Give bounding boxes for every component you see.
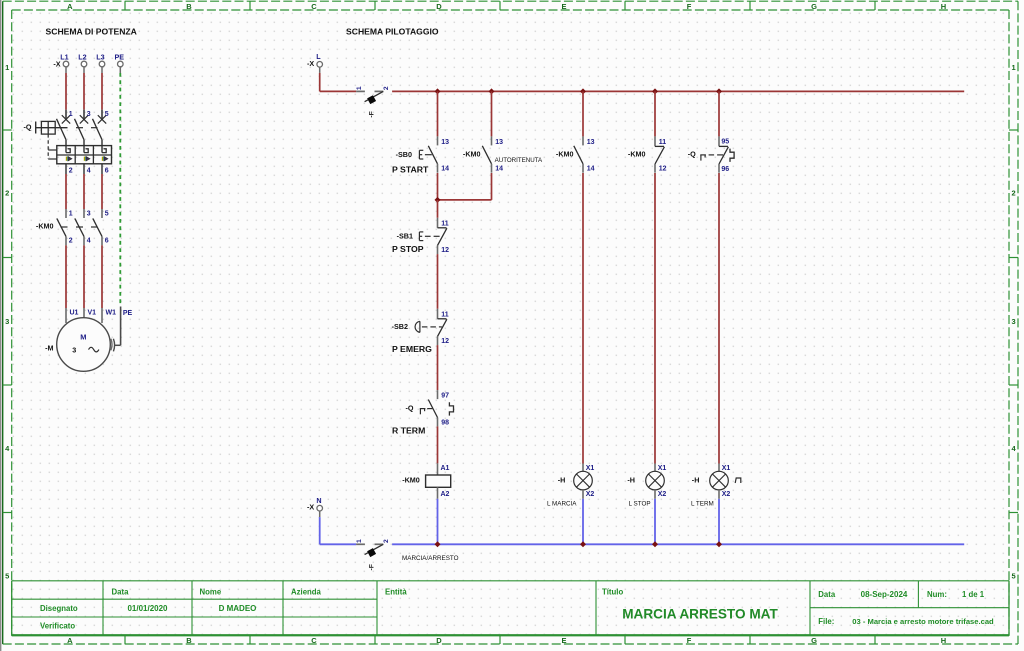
- wire L1 to breaker: [65, 73, 67, 110]
- contactor -KM0 aux contact NO 13-14: [482, 136, 491, 172]
- svg-text:G: G: [811, 636, 817, 645]
- wire contact to lamp x=583: [582, 173, 584, 464]
- svg-text:PE: PE: [123, 310, 133, 317]
- junction on neutral rail x=719: [716, 541, 722, 547]
- wire L3 contactor to motor: [101, 245, 103, 308]
- wire rail to contact x=583: [582, 91, 584, 136]
- svg-text:File:: File:: [818, 617, 834, 626]
- contactor -KM0 aux contact NC 11-12 (lamp stop): [655, 136, 664, 172]
- wire lamp to neutral x=583: [582, 499, 584, 545]
- contactor -KM0 pole 1-2: [57, 209, 66, 245]
- svg-text:Disegnato: Disegnato: [40, 604, 78, 613]
- junction on neutral rail x=583: [580, 541, 586, 547]
- pushbutton -SB0 contact NO: [428, 136, 437, 172]
- wire L1 breaker to contactor: [65, 174, 67, 209]
- wire L2 contactor to motor: [83, 245, 85, 308]
- phase rail L: [320, 90, 965, 92]
- svg-text:-M: -M: [45, 343, 53, 352]
- svg-text:11: 11: [441, 311, 449, 318]
- svg-text:X2: X2: [586, 491, 595, 498]
- svg-text:L STOP: L STOP: [629, 500, 651, 507]
- svg-text:SCHEMA DI POTENZA: SCHEMA DI POTENZA: [46, 26, 137, 36]
- wire L down to rail: [319, 73, 321, 92]
- wire coil to neutral rail: [437, 499, 439, 545]
- contactor -KM0 linkage dashes: [61, 226, 98, 228]
- svg-text:95: 95: [721, 138, 729, 145]
- wire -SB0 down: [437, 173, 439, 200]
- wire to -SB1: [437, 200, 439, 218]
- terminal L3 of -X: [96, 52, 105, 73]
- svg-text:MARCIA ARRESTO MAT: MARCIA ARRESTO MAT: [622, 606, 778, 621]
- svg-text:X1: X1: [658, 465, 667, 472]
- svg-text:14: 14: [441, 166, 449, 173]
- fuse -F on neutral rail: [356, 539, 390, 571]
- junction on phase rail x=655: [652, 88, 658, 94]
- svg-text:X2: X2: [722, 491, 731, 498]
- svg-text:08-Sep-2024: 08-Sep-2024: [861, 590, 908, 599]
- wire rail to contact x=655: [654, 91, 656, 136]
- svg-text:-SB1: -SB1: [397, 232, 413, 241]
- svg-text:1: 1: [356, 86, 363, 90]
- svg-text:F: F: [687, 636, 692, 645]
- svg-text:F: F: [687, 2, 692, 11]
- svg-text:AUTORITENUTA: AUTORITENUTA: [495, 157, 543, 164]
- svg-text:5: 5: [105, 111, 109, 118]
- svg-text:D: D: [436, 636, 442, 645]
- fuse -F on phase rail: [356, 86, 390, 118]
- svg-text:13: 13: [441, 139, 449, 146]
- wire L2 to breaker: [83, 73, 85, 110]
- wire contact to lamp x=655: [654, 173, 656, 464]
- svg-text:H: H: [941, 2, 946, 11]
- wire -KM0 aux down: [491, 173, 493, 200]
- svg-text:Título: Título: [602, 587, 623, 596]
- svg-text:-X: -X: [307, 503, 314, 512]
- -Q aux release hook: [449, 402, 453, 415]
- breaker -Q operator handle: [36, 121, 68, 134]
- svg-text:X1: X1: [586, 465, 595, 472]
- svg-text:-F: -F: [368, 564, 375, 570]
- breaker -Q linkage dashes: [48, 128, 97, 159]
- svg-text:3: 3: [1012, 317, 1016, 326]
- svg-text:B: B: [186, 2, 192, 11]
- flashing symbol next to L TERM lamp: [735, 478, 741, 483]
- wire lamp to neutral x=719: [718, 499, 720, 545]
- wire L3 to breaker: [101, 73, 103, 110]
- svg-text:L3: L3: [96, 52, 104, 61]
- motor -M stubs: [66, 308, 102, 323]
- svg-text:2: 2: [1012, 189, 1016, 198]
- wire L3 breaker to contactor: [101, 174, 103, 209]
- svg-text:2: 2: [5, 189, 9, 198]
- svg-text:E: E: [561, 636, 566, 645]
- indicator lamp -H (L MARCIA): [574, 464, 593, 499]
- svg-text:U1: U1: [70, 310, 79, 317]
- svg-text:1 de 1: 1 de 1: [962, 590, 985, 599]
- svg-text:E: E: [561, 2, 566, 11]
- svg-text:SCHEMA PILOTAGGIO: SCHEMA PILOTAGGIO: [346, 26, 439, 36]
- svg-text:Azienda: Azienda: [291, 587, 322, 596]
- terminal L1 of -X: [60, 52, 69, 73]
- wire self-hold joining: [438, 199, 492, 201]
- junction on phase rail x=491.5: [489, 88, 495, 94]
- svg-text:3: 3: [87, 210, 91, 217]
- svg-text:-H: -H: [627, 475, 635, 484]
- svg-text:1: 1: [69, 111, 73, 118]
- svg-text:03 - Marcia e arresto motore t: 03 - Marcia e arresto motore trifase.cad: [852, 617, 994, 626]
- svg-text:97: 97: [441, 393, 449, 400]
- svg-text:P STOP: P STOP: [392, 244, 424, 254]
- svg-text:C: C: [311, 2, 317, 11]
- svg-text:Data: Data: [818, 590, 836, 599]
- svg-text:-Q: -Q: [24, 123, 32, 132]
- svg-text:-KM0: -KM0: [628, 149, 646, 158]
- svg-text:M: M: [80, 333, 86, 342]
- breaker -Q pole 1-2: [57, 110, 71, 146]
- svg-text:R TERM: R TERM: [392, 426, 425, 436]
- contactor -KM0 pole 5-6: [93, 209, 102, 245]
- svg-text:12: 12: [441, 247, 449, 254]
- wire contact to lamp x=719: [718, 173, 720, 464]
- svg-text:Data: Data: [112, 587, 130, 596]
- svg-text:A: A: [67, 636, 73, 645]
- svg-text:-SB2: -SB2: [392, 322, 408, 331]
- svg-text:A1: A1: [441, 465, 450, 472]
- junction on neutral rail x=437.5: [435, 541, 441, 547]
- motor -M body: [57, 318, 111, 372]
- wire L2 breaker to contactor: [83, 174, 85, 209]
- wire rail to -SB0: [437, 91, 439, 136]
- pushbutton -SB1 contact NC: [438, 218, 447, 254]
- svg-text:98: 98: [441, 419, 449, 426]
- svg-text:14: 14: [495, 166, 503, 173]
- neutral rail N: [320, 543, 965, 545]
- svg-text:6: 6: [105, 168, 109, 175]
- svg-text:2: 2: [383, 539, 390, 543]
- svg-text:2: 2: [69, 168, 73, 175]
- svg-text:B: B: [186, 636, 192, 645]
- indicator lamp -H (L TERM): [710, 464, 729, 499]
- svg-text:P START: P START: [392, 165, 429, 175]
- -SB1 actuator: [419, 232, 439, 241]
- svg-text:Verificato: Verificato: [40, 622, 75, 631]
- svg-text:4: 4: [87, 168, 91, 175]
- terminal N of -X: [307, 496, 322, 517]
- svg-text:11: 11: [441, 220, 449, 227]
- contactor coil -KM0: [426, 463, 451, 498]
- wire to coil -KM0: [437, 426, 439, 463]
- wire to -Q aux 97: [437, 345, 439, 390]
- svg-text:12: 12: [659, 166, 667, 173]
- junction on phase rail x=719: [716, 88, 722, 94]
- wire PE dashed: [119, 73, 121, 307]
- terminal PE of -X: [115, 52, 125, 73]
- svg-text:-X: -X: [307, 59, 314, 68]
- svg-text:1: 1: [356, 539, 363, 543]
- terminal L of -X: [307, 52, 322, 73]
- -SB0 actuator: [419, 150, 431, 159]
- svg-text:3: 3: [87, 111, 91, 118]
- contactor -KM0 pole 3-4: [75, 209, 84, 245]
- breaker -Q pole 5-6: [93, 110, 107, 146]
- svg-text:-KM0: -KM0: [556, 149, 574, 158]
- -SB2 mushroom actuator: [415, 321, 442, 332]
- svg-text:H: H: [941, 636, 946, 645]
- svg-text:12: 12: [441, 338, 449, 345]
- junction on phase rail x=437.5: [435, 88, 441, 94]
- svg-text:D MADEO: D MADEO: [219, 604, 257, 613]
- terminal L2 of -X: [78, 52, 87, 73]
- svg-text:-H: -H: [558, 475, 566, 484]
- junction self-hold: [435, 197, 441, 203]
- svg-text:PE: PE: [115, 52, 125, 61]
- -Q thermal actuator: [700, 155, 723, 161]
- svg-text:W1: W1: [106, 310, 117, 317]
- thermal relay -Q contact NC 95-96 (lamp term): [719, 136, 728, 172]
- svg-text:-Q: -Q: [406, 403, 414, 412]
- svg-text:L MARCIA: L MARCIA: [547, 500, 577, 507]
- junction on phase rail x=583: [580, 88, 586, 94]
- svg-text:1: 1: [69, 210, 73, 217]
- svg-text:C: C: [311, 636, 317, 645]
- svg-text:G: G: [811, 2, 817, 11]
- svg-text:Entità: Entità: [385, 587, 407, 596]
- svg-text:L TERM: L TERM: [691, 500, 714, 507]
- svg-text:P EMERG: P EMERG: [392, 344, 432, 354]
- thermal relay -Q contact NO 97-98: [428, 390, 437, 426]
- svg-text:5: 5: [1012, 572, 1016, 581]
- svg-text:01/01/2020: 01/01/2020: [127, 604, 168, 613]
- svg-text:5: 5: [5, 572, 9, 581]
- svg-text:11: 11: [659, 139, 667, 146]
- svg-text:N: N: [316, 496, 321, 505]
- svg-text:A: A: [67, 2, 73, 11]
- svg-text:X1: X1: [722, 465, 731, 472]
- svg-text:X2: X2: [658, 491, 667, 498]
- svg-text:-H: -H: [692, 475, 700, 484]
- wire L1 contactor to motor: [65, 245, 67, 308]
- svg-text:2: 2: [383, 86, 390, 90]
- junction on neutral rail x=655: [652, 541, 658, 547]
- wire to -SB2: [437, 254, 439, 309]
- motor PE connection: [111, 307, 121, 352]
- svg-text:2: 2: [69, 238, 73, 245]
- svg-text:13: 13: [495, 139, 503, 146]
- svg-text:14: 14: [587, 166, 595, 173]
- svg-text:6: 6: [105, 238, 109, 245]
- svg-text:5: 5: [105, 210, 109, 217]
- indicator lamp -H (L STOP): [646, 464, 665, 499]
- wire rail to contact x=719: [718, 91, 720, 136]
- svg-text:Num:: Num:: [927, 590, 947, 599]
- svg-text:-F: -F: [368, 111, 375, 117]
- breaker -Q pole 3-4: [75, 110, 89, 146]
- svg-text:L: L: [316, 52, 321, 61]
- svg-text:3: 3: [5, 317, 9, 326]
- svg-text:3: 3: [72, 346, 76, 355]
- svg-text:-KM0: -KM0: [36, 221, 54, 230]
- wire N down to rail: [319, 517, 321, 544]
- -Q aux thermal actuator: [420, 409, 433, 415]
- svg-text:D: D: [436, 2, 442, 11]
- svg-text:1: 1: [5, 63, 9, 72]
- wire rail to -KM0 aux: [491, 91, 493, 136]
- svg-text:4: 4: [87, 238, 91, 245]
- contactor -KM0 aux contact NO 13-14 (lamp marcia): [574, 136, 583, 172]
- svg-text:13: 13: [587, 139, 595, 146]
- svg-text:-SB0: -SB0: [396, 150, 412, 159]
- svg-text:Nome: Nome: [200, 587, 222, 596]
- svg-text:V1: V1: [88, 310, 97, 317]
- svg-text:-KM0: -KM0: [402, 475, 420, 484]
- svg-text:MARCIA/ARRESTO: MARCIA/ARRESTO: [402, 555, 459, 562]
- svg-text:L2: L2: [78, 52, 86, 61]
- svg-text:A2: A2: [441, 491, 450, 498]
- svg-text:-KM0: -KM0: [463, 149, 481, 158]
- wire lamp to neutral x=655: [654, 499, 656, 545]
- svg-text:-Q: -Q: [688, 149, 696, 158]
- breaker -Q thermal overload block: [57, 146, 112, 174]
- pushbutton -SB2 contact NC: [438, 309, 447, 345]
- svg-text:96: 96: [721, 166, 729, 173]
- svg-text:L1: L1: [60, 52, 68, 61]
- -Q release hook: [730, 149, 734, 162]
- svg-text:1: 1: [1012, 63, 1016, 72]
